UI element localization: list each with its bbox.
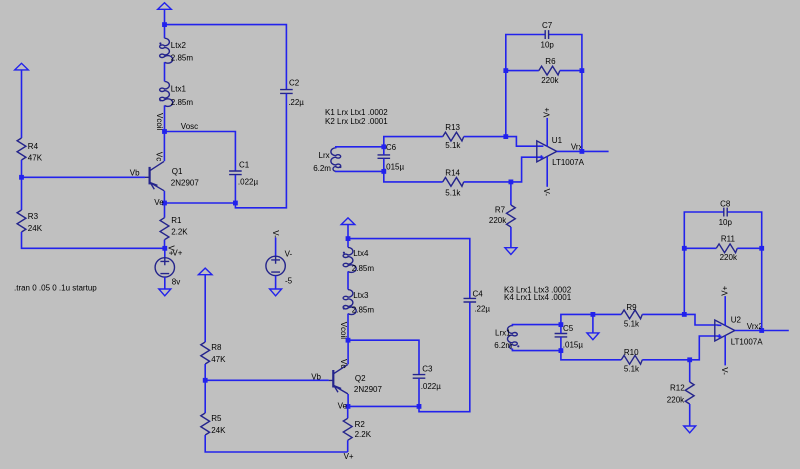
wire V1 to ground	[164, 277, 166, 289]
svg-text:Vrx: Vrx	[571, 142, 583, 151]
svg-text:R13: R13	[445, 123, 460, 132]
transistor Q1 2N2907	[145, 161, 164, 190]
svg-text:R14: R14	[445, 169, 460, 178]
inductor Ltx2	[160, 38, 173, 63]
svg-text:V-: V-	[285, 249, 293, 258]
node junction at flag/coil/C2 tee	[162, 22, 167, 27]
wire collector	[163, 132, 165, 162]
node junction R13/feedback	[503, 134, 508, 139]
svg-text:R12: R12	[670, 384, 685, 393]
inductor Ltx4	[343, 247, 356, 272]
wire R6 left	[506, 70, 539, 72]
wire emitter 2	[347, 394, 349, 406]
wire R10 to R12 node	[642, 359, 689, 361]
svg-text:5.1k: 5.1k	[445, 141, 461, 150]
wire U1 output Vrx	[557, 150, 609, 152]
svg-text:220k: 220k	[489, 216, 507, 225]
svg-text:Ltx1: Ltx1	[171, 84, 187, 93]
svg-text:C2: C2	[289, 79, 300, 88]
power flag lower-left rail	[198, 268, 212, 275]
op-amp U2 LT1007A	[715, 320, 735, 341]
resistor R6	[539, 66, 560, 75]
voltage source V1 8v	[155, 258, 174, 277]
svg-text:Vcoil: Vcoil	[339, 322, 348, 340]
ground under R7	[505, 248, 517, 255]
wire U2 output Vrx2	[735, 330, 789, 332]
svg-text:V+: V+	[720, 285, 729, 295]
wire C4 bottom	[419, 302, 470, 411]
wire R5 to bottom rail	[205, 435, 348, 452]
svg-text:2N2907: 2N2907	[354, 385, 383, 394]
capacitor C5	[555, 334, 568, 337]
wire Lrx bottom to C6	[336, 170, 384, 173]
wire rail to C4	[348, 239, 470, 298]
svg-text:.22µ: .22µ	[474, 304, 490, 313]
node junction R11 right	[759, 246, 764, 251]
svg-text:5.1k: 5.1k	[624, 319, 640, 328]
wire step up to U2 plus input	[690, 336, 719, 360]
svg-text:R9: R9	[626, 303, 637, 312]
wire Vb base 2	[205, 379, 329, 381]
wire U2 V+ pin	[724, 296, 726, 326]
svg-text:V+: V+	[172, 249, 182, 258]
svg-text:.022µ: .022µ	[421, 382, 442, 391]
svg-text:8v: 8v	[172, 277, 180, 286]
node junction C1 bottom	[233, 201, 238, 206]
wire flag to R8	[204, 275, 206, 342]
svg-text:R1: R1	[171, 216, 182, 225]
wire R11 right	[737, 247, 761, 249]
svg-text:C3: C3	[422, 364, 433, 373]
resistor R12	[689, 360, 691, 382]
svg-text:220k: 220k	[720, 253, 738, 262]
resistor R8	[201, 342, 210, 364]
wire V- label to V2	[275, 238, 277, 257]
wire to V1	[164, 248, 166, 257]
svg-text:47K: 47K	[28, 153, 43, 162]
svg-text:.tran 0 .05 0 .1u startup: .tran 0 .05 0 .1u startup	[14, 284, 97, 293]
node junction C6 bottom	[381, 169, 386, 174]
node junction R9/feedback	[682, 312, 687, 317]
capacitor C7	[545, 30, 548, 39]
node junction Ve 2	[346, 404, 351, 409]
svg-text:Vc: Vc	[154, 152, 163, 161]
svg-text:U2: U2	[731, 315, 742, 324]
wire emitter	[163, 191, 165, 203]
svg-text:.22µ: .22µ	[288, 98, 304, 107]
transistor Q2 2N2907	[329, 365, 348, 394]
wire R1 to V+ node	[164, 240, 166, 249]
node junction top of Ltx4	[346, 236, 351, 241]
resistor R1	[164, 203, 166, 218]
svg-text:K2 Lrx Ltx2 .0001: K2 Lrx Ltx2 .0001	[325, 117, 388, 126]
wire Ltx3 to Vcoil node	[347, 314, 349, 341]
ground under V1	[159, 289, 171, 296]
inductor Ltx1	[160, 81, 173, 106]
svg-text:R6: R6	[545, 57, 556, 66]
svg-text:Q1: Q1	[172, 167, 183, 176]
svg-text:C4: C4	[473, 289, 484, 298]
svg-text:.022µ: .022µ	[238, 177, 259, 186]
node junction R14/R7	[509, 180, 514, 185]
wire R12 to ground	[689, 404, 691, 426]
svg-text:V+: V+	[542, 107, 551, 117]
wire flag to R4	[21, 70, 23, 138]
svg-text:V-: V-	[271, 230, 280, 238]
wire Lrx top to C6	[336, 147, 384, 149]
capacitor C1	[229, 171, 242, 175]
node junction Vrx	[580, 149, 585, 154]
svg-text:V-: V-	[542, 189, 551, 197]
svg-text:Lrx1: Lrx1	[495, 329, 511, 338]
svg-text:5.1k: 5.1k	[624, 364, 640, 373]
wire collector 2	[347, 340, 349, 364]
resistor R3	[17, 210, 26, 232]
wire R13 to feedback node	[464, 136, 506, 138]
node junction C3 bottom	[417, 404, 422, 409]
node junction Vcoil	[162, 129, 167, 134]
svg-text:2.2K: 2.2K	[171, 227, 188, 236]
wire Vcc rail to C2	[165, 25, 287, 90]
svg-text:5.1k: 5.1k	[445, 189, 461, 198]
svg-text:47K: 47K	[211, 355, 226, 364]
svg-text:R5: R5	[211, 414, 222, 423]
wire feedback left rail 2	[684, 212, 724, 314]
svg-text:LT1007A: LT1007A	[731, 337, 764, 346]
wire step down to U1 minus input	[506, 137, 541, 147]
svg-text:24K: 24K	[28, 224, 43, 233]
svg-text:K4 Lrx1 Ltx4 .0001: K4 Lrx1 Ltx4 .0001	[504, 293, 572, 302]
node junction R6 right	[580, 68, 585, 73]
svg-text:Ltx4: Ltx4	[353, 249, 369, 258]
ground under V2	[270, 289, 282, 296]
wire R3 to bottom rail	[22, 232, 165, 248]
wire feedback right rail 2	[727, 212, 762, 331]
wire feedback left rail	[506, 35, 545, 137]
capacitor C2	[280, 90, 293, 94]
node junction Vrx2	[759, 328, 764, 333]
inductor Lrx1	[507, 326, 517, 349]
resistor R2	[347, 406, 349, 418]
svg-text:Vc: Vc	[339, 359, 348, 368]
node junction C5 top	[559, 322, 564, 327]
ground on R9 line	[587, 333, 599, 340]
wire Vosc to C1	[165, 132, 236, 171]
node junction V+	[162, 246, 167, 251]
svg-text:Vcoil: Vcoil	[155, 113, 164, 131]
wire R8 to Vb node	[204, 364, 206, 413]
resistor R7	[510, 182, 512, 205]
svg-text:R3: R3	[28, 212, 39, 221]
wire ground stub	[592, 314, 594, 333]
svg-text:.015µ: .015µ	[563, 341, 584, 350]
svg-text:Q2: Q2	[355, 374, 366, 383]
svg-text:24K: 24K	[211, 426, 226, 435]
svg-text:Ve: Ve	[338, 401, 348, 410]
capacitor C8	[724, 208, 727, 217]
wire C6 leads	[383, 147, 385, 172]
svg-text:C5: C5	[563, 324, 574, 333]
wire C5 top to R9 line	[561, 314, 621, 324]
capacitor C3	[413, 375, 426, 379]
svg-text:2.85m: 2.85m	[352, 264, 375, 273]
wire R11 left	[684, 247, 716, 249]
resistor R14	[443, 178, 464, 187]
wire R4 to Vb node	[21, 160, 23, 210]
svg-text:K1 Lrx Ltx1 .0002: K1 Lrx Ltx1 .0002	[325, 108, 388, 117]
power flag left rail	[15, 63, 29, 70]
svg-text:2.85m: 2.85m	[171, 98, 194, 107]
svg-text:2.2K: 2.2K	[355, 430, 372, 439]
svg-text:V+: V+	[344, 452, 354, 461]
wire flag stem to Ltx2	[164, 9, 166, 38]
wire U2 V- pin	[724, 336, 726, 366]
node junction C5 bottom	[559, 348, 564, 353]
wire Lrx1 bottom to C5	[512, 349, 561, 351]
capacitor C4	[464, 298, 477, 302]
svg-text:220k: 220k	[667, 395, 685, 404]
wire R2 to V+ rail	[347, 440, 349, 452]
svg-text:LT1007A: LT1007A	[552, 158, 585, 167]
node junction R11 left	[682, 246, 687, 251]
wire C2 bottom down	[235, 94, 286, 208]
svg-text:V-: V-	[720, 367, 729, 375]
wire feedback right rail	[549, 35, 582, 152]
node junction R6 left	[503, 68, 508, 73]
wire C6 top to R13 line	[384, 137, 443, 147]
svg-text:R8: R8	[211, 343, 222, 352]
wire U1 V+ pin	[546, 118, 548, 147]
wire C1 bottom	[234, 175, 236, 203]
wire C5 bottom to R10 line	[561, 351, 621, 360]
wire R9 to feedback node	[642, 313, 684, 315]
node junction Vb rail 2	[203, 378, 208, 383]
wire U1 V- pin	[546, 157, 548, 187]
resistor R13	[443, 132, 464, 141]
ground under R12	[684, 426, 696, 433]
svg-text:.015µ: .015µ	[384, 163, 405, 172]
wire flag to junction	[347, 225, 349, 248]
resistor R4	[17, 138, 26, 160]
svg-text:10p: 10p	[719, 218, 733, 227]
wire Vcoil to C3	[348, 340, 419, 374]
svg-text:R7: R7	[495, 206, 506, 215]
svg-text:R11: R11	[721, 234, 736, 243]
svg-text:Ltx2: Ltx2	[171, 41, 187, 50]
inductor Lrx	[331, 148, 341, 171]
node junction Vb rail	[19, 175, 24, 180]
wire R14 to R7 node	[464, 181, 511, 183]
power flag top of Ltx2 rail	[158, 3, 172, 10]
node junction C6 top	[381, 144, 386, 149]
svg-text:220k: 220k	[541, 76, 559, 85]
resistor R5	[201, 413, 210, 435]
svg-text:6.2m: 6.2m	[313, 164, 331, 173]
svg-text:Vb: Vb	[311, 373, 321, 382]
svg-text:-5: -5	[285, 276, 293, 285]
wire V2 to ground	[275, 276, 277, 289]
wire R6 right	[560, 70, 582, 72]
svg-text:R10: R10	[624, 348, 639, 357]
wire C5 leads	[560, 325, 562, 351]
wire step up to U1 plus input	[511, 157, 541, 182]
wire step down to U2 minus input	[684, 314, 718, 325]
svg-text:6.2m: 6.2m	[494, 341, 512, 350]
svg-text:C7: C7	[542, 21, 553, 30]
resistor R9	[621, 310, 642, 319]
resistor R11	[716, 244, 737, 253]
svg-text:C8: C8	[720, 200, 731, 209]
inductor Ltx3	[343, 290, 356, 315]
svg-text:C6: C6	[386, 143, 397, 152]
wire Lrx1 top to C5	[512, 325, 561, 327]
wire C6 bottom to R14 line	[384, 171, 443, 182]
wire Vb base	[22, 176, 146, 178]
svg-text:U1: U1	[552, 136, 563, 145]
wire Ve horizontal 2	[348, 405, 419, 407]
op-amp U1 LT1007A	[537, 141, 557, 162]
svg-text:C1: C1	[239, 160, 250, 169]
wire between coils	[164, 62, 166, 81]
wire R7 to ground	[510, 227, 512, 248]
resistor R10	[621, 355, 642, 364]
wire Ltx1 to Vcoil node	[164, 105, 166, 131]
svg-text:Lrx: Lrx	[319, 151, 330, 160]
svg-text:R4: R4	[28, 142, 39, 151]
svg-text:10p: 10p	[541, 41, 555, 50]
wire Ve horizontal	[165, 202, 236, 204]
svg-text:Vb: Vb	[130, 168, 140, 177]
svg-text:2.85m: 2.85m	[171, 54, 194, 63]
node junction Ve	[162, 201, 167, 206]
svg-text:R2: R2	[355, 420, 366, 429]
wire C3 bottom	[418, 379, 420, 407]
capacitor C6	[378, 155, 391, 158]
svg-text:2N2907: 2N2907	[171, 179, 200, 188]
svg-text:2.85m: 2.85m	[352, 306, 375, 315]
wire between coils	[347, 271, 349, 289]
voltage source V2 -5	[266, 256, 285, 275]
node junction R10/R12	[687, 357, 692, 362]
power flag bottom osc rail	[341, 218, 355, 225]
svg-text:Vosc: Vosc	[181, 122, 198, 131]
node junction Vcoil 2	[346, 338, 351, 343]
svg-text:Ve: Ve	[154, 198, 164, 207]
node junction ground stub	[591, 312, 596, 317]
svg-text:Ltx3: Ltx3	[353, 291, 369, 300]
